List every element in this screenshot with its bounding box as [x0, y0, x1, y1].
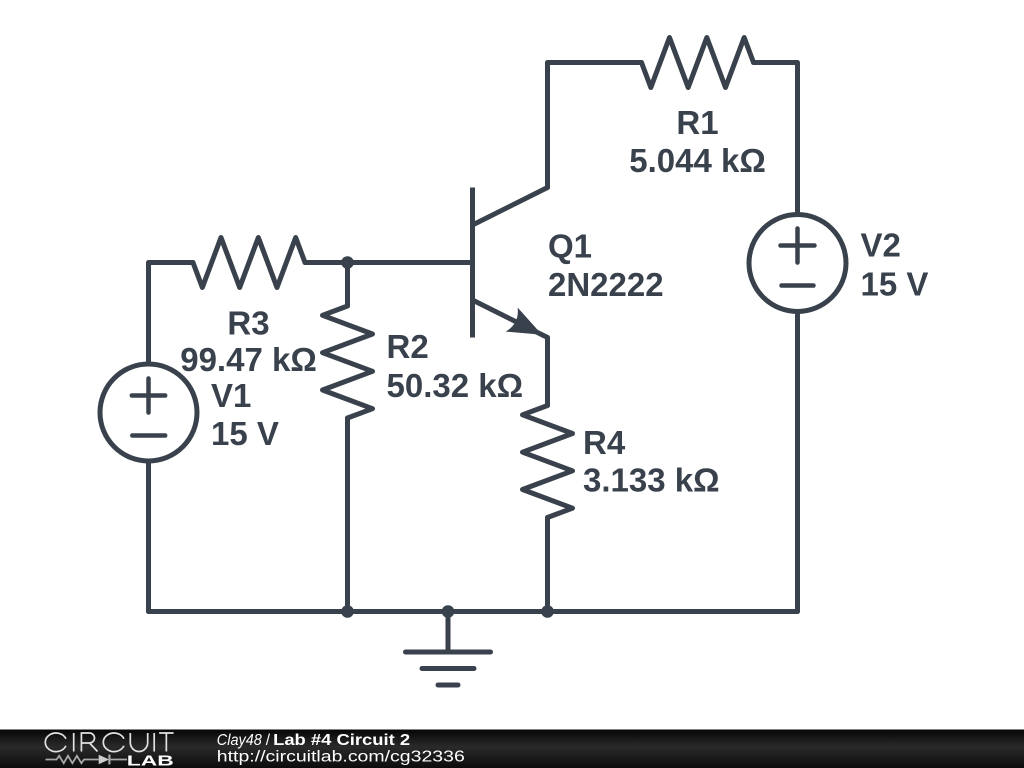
resistor R2: [323, 306, 373, 418]
svg-text:2N2222: 2N2222: [548, 266, 664, 303]
svg-text:15 V: 15 V: [861, 265, 929, 302]
svg-text:V1: V1: [211, 377, 251, 414]
resistor R1: [642, 38, 754, 88]
svg-text:Q1: Q1: [548, 228, 592, 265]
svg-text:5.044 kΩ: 5.044 kΩ: [629, 142, 766, 179]
wire V2 bottom to bottom rail: [795, 312, 800, 612]
node R2 bottom junction: [341, 605, 354, 618]
node ground junction: [442, 605, 455, 618]
voltage source V2: [749, 215, 846, 312]
wire R1 to V2 top: [754, 63, 798, 215]
svg-text:99.47 kΩ: 99.47 kΩ: [180, 341, 317, 378]
wire R2 bottom to bottom rail: [345, 418, 350, 612]
wire V1 bottom to bottom rail: [146, 461, 151, 612]
wire node to R2 top: [345, 263, 350, 307]
ground: [406, 612, 491, 686]
node base junction: [341, 256, 354, 269]
wire bottom rail: [149, 609, 798, 614]
svg-text:R3: R3: [227, 304, 269, 341]
CircuitLab logo wordmark CIRCUIT: [45, 733, 173, 752]
voltage source V1: [100, 364, 197, 461]
svg-text:R4: R4: [583, 424, 626, 461]
node R4 bottom junction: [541, 605, 554, 618]
wire emitter to R4: [545, 338, 550, 406]
svg-text:Lab #4 Circuit 2: Lab #4 Circuit 2: [273, 732, 410, 749]
svg-text:50.32 kΩ: 50.32 kΩ: [387, 367, 524, 404]
resistor R3: [193, 238, 305, 288]
footer title line: [217, 732, 465, 766]
svg-text:R2: R2: [387, 328, 429, 365]
wire V1 top to R3: [149, 263, 194, 365]
svg-text:3.133 kΩ: 3.133 kΩ: [583, 462, 720, 499]
transistor Q1: [473, 188, 548, 338]
wire R4 bottom to bottom rail: [545, 518, 550, 612]
wire collector riser and top-left segment: [548, 63, 642, 188]
wire R3 to base: [305, 260, 473, 265]
svg-text:Clay48: Clay48: [217, 732, 262, 749]
resistor R4: [523, 406, 573, 518]
svg-text:R1: R1: [676, 104, 718, 141]
CircuitLab logo resistor-diode line: [46, 755, 128, 765]
svg-text:15 V: 15 V: [211, 415, 279, 452]
svg-text:http://circuitlab.com/cg32336: http://circuitlab.com/cg32336: [217, 749, 465, 766]
svg-text:/: /: [266, 732, 271, 749]
svg-text:LAB: LAB: [127, 752, 174, 768]
svg-text:V2: V2: [861, 227, 901, 264]
